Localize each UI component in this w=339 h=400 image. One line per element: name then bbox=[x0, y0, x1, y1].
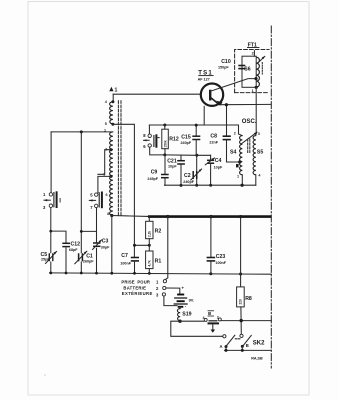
svg-text:PRISE POUR: PRISE POUR bbox=[121, 280, 149, 285]
svg-text:C3: C3 bbox=[102, 239, 109, 245]
svg-text:25pF: 25pF bbox=[41, 258, 50, 262]
svg-text:3: 3 bbox=[258, 132, 260, 136]
svg-text:III: III bbox=[208, 311, 212, 316]
svg-text:2,2k: 2,2k bbox=[148, 231, 152, 237]
svg-text:EXTÉRIEURE: EXTÉRIEURE bbox=[122, 291, 153, 296]
svg-text:6: 6 bbox=[106, 193, 108, 197]
svg-text:2: 2 bbox=[252, 51, 254, 55]
svg-text:R12: R12 bbox=[169, 137, 179, 143]
svg-text:4,7k: 4,7k bbox=[148, 260, 152, 266]
svg-text:10pF: 10pF bbox=[168, 165, 177, 169]
svg-text:9V.: 9V. bbox=[189, 297, 194, 302]
svg-text:C12: C12 bbox=[71, 242, 81, 248]
svg-text:S6: S6 bbox=[244, 67, 250, 73]
svg-text:R2: R2 bbox=[155, 229, 162, 235]
svg-text:SK2: SK2 bbox=[253, 340, 265, 346]
svg-text:C4: C4 bbox=[215, 158, 222, 164]
svg-text:BATTERIE: BATTERIE bbox=[123, 285, 146, 290]
svg-text:R8: R8 bbox=[245, 296, 252, 302]
svg-text:240pF: 240pF bbox=[181, 141, 192, 145]
svg-text:C9: C9 bbox=[151, 170, 158, 176]
svg-text:AF 127: AF 127 bbox=[198, 78, 210, 82]
svg-text:68pF: 68pF bbox=[69, 248, 78, 252]
svg-text:30pF: 30pF bbox=[101, 246, 110, 250]
svg-text:22nF: 22nF bbox=[209, 140, 218, 144]
svg-text:100nF: 100nF bbox=[215, 261, 226, 265]
svg-text:150pF: 150pF bbox=[218, 66, 229, 70]
svg-text:R1: R1 bbox=[155, 258, 162, 264]
svg-text:OSC.: OSC. bbox=[242, 119, 257, 125]
svg-text:C7: C7 bbox=[121, 253, 128, 259]
svg-text:100nF: 100nF bbox=[120, 262, 131, 266]
svg-text:2: 2 bbox=[234, 131, 236, 135]
svg-text:C8: C8 bbox=[210, 134, 217, 140]
svg-text:S5: S5 bbox=[257, 149, 263, 155]
svg-text:C2: C2 bbox=[184, 173, 191, 179]
svg-text:240pF: 240pF bbox=[183, 180, 194, 184]
svg-text:150k: 150k bbox=[164, 140, 168, 147]
svg-text:1: 1 bbox=[237, 174, 239, 178]
svg-text:C10: C10 bbox=[221, 59, 231, 65]
svg-text:C1: C1 bbox=[86, 254, 93, 260]
svg-text:C23: C23 bbox=[216, 254, 226, 260]
svg-text:A: A bbox=[220, 344, 223, 349]
svg-text:245pF: 245pF bbox=[147, 177, 158, 181]
svg-text:S19: S19 bbox=[182, 312, 191, 318]
svg-text:260pF: 260pF bbox=[83, 260, 94, 264]
svg-text:10pF: 10pF bbox=[214, 165, 223, 169]
svg-text:C15: C15 bbox=[181, 134, 191, 140]
svg-text:220: 220 bbox=[239, 299, 243, 305]
svg-text:RA,SB: RA,SB bbox=[251, 357, 263, 361]
svg-text:8: 8 bbox=[107, 212, 109, 216]
svg-text:1: 1 bbox=[115, 87, 118, 93]
svg-text:5: 5 bbox=[105, 122, 107, 126]
svg-text:B: B bbox=[246, 343, 249, 348]
svg-text:1: 1 bbox=[252, 89, 254, 93]
svg-text:S4: S4 bbox=[230, 150, 236, 156]
